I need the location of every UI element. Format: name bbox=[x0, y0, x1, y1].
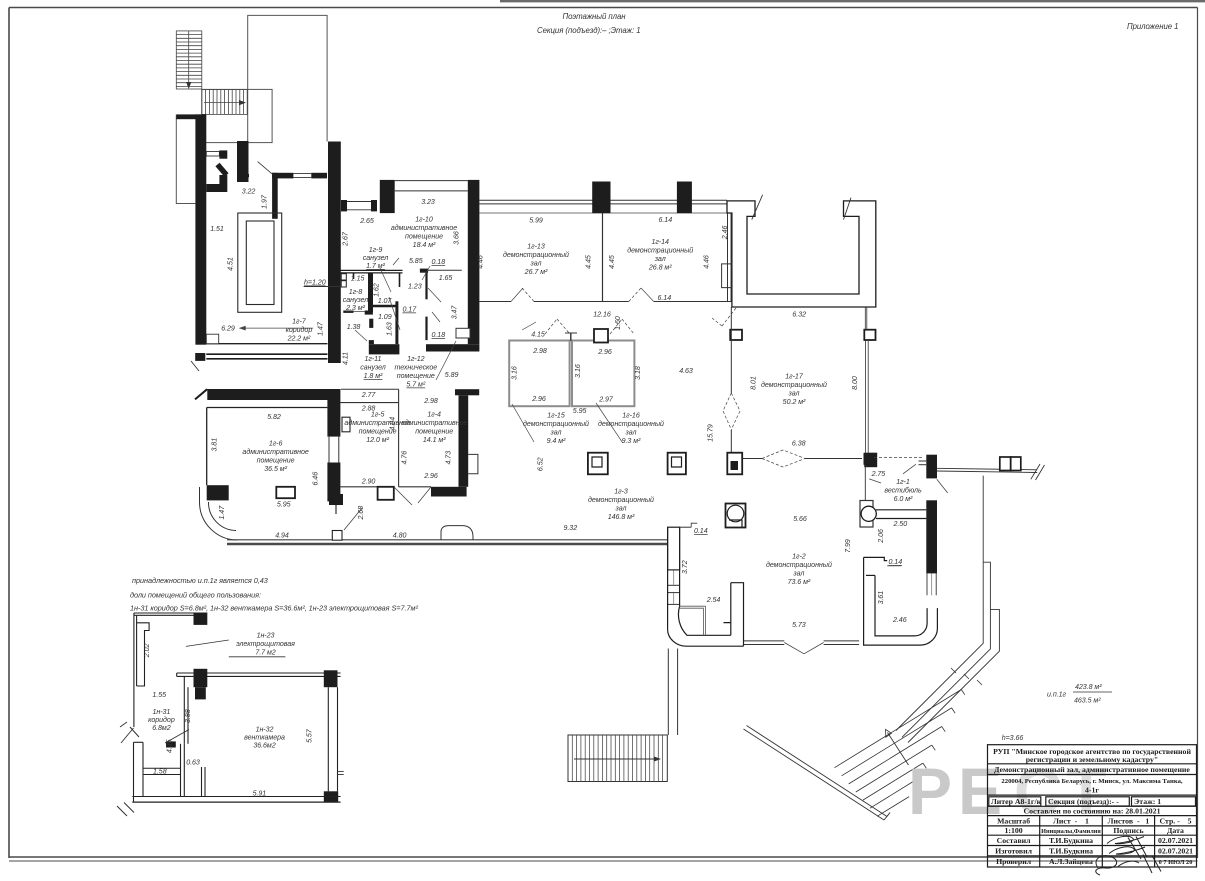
fixture box top of 16 bbox=[594, 329, 608, 343]
svg-text:1.63: 1.63 bbox=[385, 322, 393, 336]
column box at 1g-5 door bbox=[378, 487, 394, 500]
svg-text:Составил: Составил bbox=[997, 836, 1032, 845]
south wall main bbox=[227, 539, 668, 541]
15.79 wall line with diamond bbox=[730, 307, 732, 393]
svg-text:зал: зал bbox=[530, 260, 542, 268]
svg-text:2.65: 2.65 bbox=[359, 217, 374, 225]
svg-text:18.4 м²: 18.4 м² bbox=[413, 241, 436, 249]
main left thick wall bbox=[195, 114, 206, 344]
top window band halls 13/14 bbox=[479, 199, 727, 201]
svg-text:6.46: 6.46 bbox=[312, 472, 320, 486]
svg-text:3.81: 3.81 bbox=[211, 438, 219, 452]
svg-text:1.8 м²: 1.8 м² bbox=[364, 372, 383, 380]
svg-text:принадлежностью и.п.1г являет: принадлежностью и.п.1г является 0,43 bbox=[132, 576, 268, 585]
h=1.20 line bbox=[304, 286, 341, 288]
svg-text:Изготовил: Изготовил bbox=[995, 846, 1032, 855]
svg-text:7.7 м2: 7.7 м2 bbox=[255, 649, 275, 657]
svg-text:3.47: 3.47 bbox=[451, 305, 459, 320]
svg-text:36.6м2: 36.6м2 bbox=[253, 742, 275, 750]
small box on south wall bbox=[332, 531, 342, 541]
svg-text:2.3 м²: 2.3 м² bbox=[345, 304, 365, 312]
svg-text:220004, Республика Беларусь, г: 220004, Республика Беларусь, г. Минск, у… bbox=[1001, 778, 1183, 785]
svg-text:1.38: 1.38 bbox=[347, 323, 361, 331]
svg-text:3.18: 3.18 bbox=[634, 366, 642, 380]
svg-text:9.4 м²: 9.4 м² bbox=[547, 437, 566, 445]
watermark bbox=[908, 754, 1112, 828]
svg-text:Т.И.Будкина: Т.И.Будкина bbox=[1049, 846, 1093, 855]
svg-text:h=1.20: h=1.20 bbox=[304, 279, 326, 287]
svg-text:1н-31 коридор S=6.8м², 1н-32: 1н-31 коридор S=6.8м², 1н-32 венткамера … bbox=[130, 604, 418, 613]
door swings halls bbox=[511, 288, 523, 302]
svg-text:3.16: 3.16 bbox=[511, 366, 519, 380]
1g-6 SW corner bbox=[207, 485, 229, 500]
svg-text:22.2 м²: 22.2 м² bbox=[287, 335, 311, 343]
stair shaft outer thin rect bbox=[202, 15, 327, 142]
lower-left cell walls bbox=[133, 742, 135, 802]
top wall 1n-23 bbox=[134, 612, 208, 614]
porch edge lines / steps bbox=[896, 476, 983, 731]
svg-text:техническое: техническое bbox=[394, 364, 437, 372]
ventkamera right wall bbox=[327, 687, 329, 791]
entry top wall y173-178 bbox=[272, 173, 327, 179]
svg-text:4.76: 4.76 bbox=[401, 451, 409, 465]
svg-text:зал: зал bbox=[550, 429, 562, 437]
bottom wall halls 13/14 bbox=[479, 301, 511, 303]
svg-text:Масштаб: Масштаб bbox=[997, 816, 1030, 825]
1g-5 walls bbox=[341, 388, 399, 390]
svg-text:Дата: Дата bbox=[1167, 826, 1184, 835]
svg-text:1.62: 1.62 bbox=[372, 283, 380, 297]
corridor arrow 6.29 bbox=[242, 327, 313, 329]
svg-text:Демонстрационный зал, админист: Демонстрационный зал, административное п… bbox=[994, 765, 1190, 774]
svg-text:1н-23: 1н-23 bbox=[257, 632, 275, 640]
svg-text:1г-9: 1г-9 bbox=[369, 246, 383, 254]
svg-text:демонстрационный: демонстрационный bbox=[503, 251, 569, 259]
svg-text:зал: зал bbox=[788, 390, 800, 398]
left wall windows bbox=[668, 569, 680, 571]
door swing left bbox=[752, 195, 763, 220]
door swing 3.22 bbox=[258, 162, 273, 174]
svg-text:1.58: 1.58 bbox=[153, 767, 167, 775]
svg-text:А.Л.Зайцева: А.Л.Зайцева bbox=[1049, 857, 1093, 866]
ventkamera left wall bbox=[183, 676, 185, 743]
svg-text:вестибюль: вестибюль bbox=[884, 487, 922, 495]
wall between entry and shaft bbox=[272, 173, 278, 219]
svg-text:0.17: 0.17 bbox=[402, 306, 417, 314]
svg-text:h=3.66: h=3.66 bbox=[1002, 734, 1024, 742]
svg-text:4.45: 4.45 bbox=[585, 255, 593, 269]
wall right of landing (3.22 doorway) bbox=[237, 141, 249, 182]
svg-text:1г-15: 1г-15 bbox=[547, 412, 565, 420]
svg-text:14.1 м²: 14.1 м² bbox=[423, 436, 446, 444]
left wall bbox=[133, 613, 135, 727]
svg-text:1г-5: 1г-5 bbox=[371, 411, 385, 419]
svg-text:4.46: 4.46 bbox=[702, 255, 710, 269]
svg-text:1г-13: 1г-13 bbox=[527, 243, 545, 251]
svg-text:1г-11: 1г-11 bbox=[365, 355, 382, 363]
svg-text:73.6 м²: 73.6 м² bbox=[788, 578, 811, 586]
chamfer wall piece bbox=[219, 150, 227, 158]
svg-text:санузел: санузел bbox=[343, 296, 369, 304]
svg-text:5.82: 5.82 bbox=[267, 413, 281, 421]
right pier black lower bbox=[926, 500, 937, 573]
gray room boxes 15/16 bbox=[509, 341, 569, 407]
svg-text:0.18: 0.18 bbox=[431, 258, 445, 266]
svg-text:Листов - 1: Листов - 1 bbox=[1108, 816, 1150, 825]
svg-text:Этаж: 1: Этаж: 1 bbox=[1134, 797, 1161, 806]
svg-text:3.22: 3.22 bbox=[242, 188, 256, 196]
column at 15.79 bottom bbox=[727, 453, 742, 475]
svg-text:2.96: 2.96 bbox=[597, 348, 612, 356]
svg-text:146.8 м²: 146.8 м² bbox=[608, 513, 635, 521]
columns row bbox=[588, 453, 608, 475]
svg-text:1:100: 1:100 bbox=[1004, 826, 1022, 835]
svg-text:0.18: 0.18 bbox=[431, 331, 445, 339]
svg-text:6.14: 6.14 bbox=[657, 294, 671, 302]
svg-text:зал: зал bbox=[792, 570, 804, 578]
svg-text:регистрации и земельному кадас: регистрации и земельному кадастру" bbox=[1026, 755, 1159, 764]
svg-text:венткамера: венткамера bbox=[244, 734, 285, 742]
1g-4 walls bbox=[455, 389, 479, 395]
pier1 bbox=[592, 182, 610, 214]
exterior wall double to stair bbox=[667, 649, 669, 736]
svg-text:5.73: 5.73 bbox=[792, 621, 806, 629]
1g-2 left wall bbox=[668, 527, 680, 570]
svg-text:4.51: 4.51 bbox=[227, 257, 235, 271]
svg-text:12.0 м²: 12.0 м² bbox=[366, 436, 389, 444]
vestibule south wall band bbox=[876, 510, 926, 519]
svg-text:и.п.1г: и.п.1г bbox=[1047, 691, 1066, 699]
svg-text:8.00: 8.00 bbox=[851, 376, 859, 390]
svg-text:административное: административное bbox=[242, 448, 308, 456]
svg-text:5.95: 5.95 bbox=[573, 407, 587, 415]
svg-text:демонстрационный: демонстрационный bbox=[523, 420, 589, 428]
svg-text:демонстрационный: демонстрационный bbox=[766, 561, 832, 569]
svg-text:4.04: 4.04 bbox=[389, 417, 397, 431]
svg-text:2.77: 2.77 bbox=[361, 391, 377, 399]
U loading dock walls bbox=[727, 201, 876, 307]
svg-text:РЕ: РЕ bbox=[908, 754, 1008, 828]
SE J-wall of 1g-2 bbox=[864, 557, 888, 560]
svg-text:3.72: 3.72 bbox=[681, 560, 689, 574]
svg-text:50.2 м²: 50.2 м² bbox=[783, 398, 806, 406]
svg-text:административное: административное bbox=[401, 419, 467, 427]
canopy columns bbox=[1000, 457, 1011, 471]
svg-text:зал: зал bbox=[615, 505, 627, 513]
svg-text:4.63: 4.63 bbox=[679, 367, 693, 375]
svg-text:1.07: 1.07 bbox=[378, 297, 393, 305]
left attachment box bbox=[722, 264, 732, 288]
svg-text:1г-3: 1г-3 bbox=[614, 488, 628, 496]
svg-text:4.94: 4.94 bbox=[275, 531, 289, 539]
svg-text:Инициалы,Фамилия: Инициалы,Фамилия bbox=[1041, 828, 1101, 835]
svg-text:2.97: 2.97 bbox=[598, 396, 614, 404]
svg-text:6.14: 6.14 bbox=[658, 216, 672, 224]
svg-text:2.68: 2.68 bbox=[357, 506, 365, 521]
svg-text:1н-32: 1н-32 bbox=[256, 726, 274, 734]
svg-text:2.90: 2.90 bbox=[361, 478, 376, 486]
top stepped wall left bbox=[341, 200, 377, 211]
svg-text:1г-1: 1г-1 bbox=[896, 478, 910, 486]
svg-text:1.51: 1.51 bbox=[210, 225, 224, 233]
svg-text:2.96: 2.96 bbox=[531, 395, 546, 403]
svg-text:3.61: 3.61 bbox=[877, 591, 885, 605]
corridor 1g-7 bottom thin wall bbox=[206, 343, 327, 345]
left thin strip bbox=[176, 115, 195, 204]
right wall 1g-17 bbox=[864, 340, 866, 453]
svg-text:административное: административное bbox=[391, 224, 457, 232]
svg-text:демонстрационный: демонстрационный bbox=[761, 381, 827, 389]
svg-text:9.3 м²: 9.3 м² bbox=[622, 437, 641, 445]
svg-text:2.02: 2.02 bbox=[143, 643, 151, 658]
svg-text:2.46: 2.46 bbox=[892, 616, 907, 624]
svg-text:0 7 ИЮЛ 20: 0 7 ИЮЛ 20 bbox=[1159, 859, 1193, 866]
svg-text:Стр. - 5: Стр. - 5 bbox=[1160, 816, 1192, 825]
svg-text:1.7 м²: 1.7 м² bbox=[366, 262, 385, 270]
svg-text:8.01: 8.01 bbox=[750, 376, 758, 390]
svg-text:1.97: 1.97 bbox=[261, 194, 269, 209]
door swing right bbox=[844, 198, 852, 220]
elevator shaft double-wall rect bbox=[238, 213, 282, 312]
top tick between bbox=[570, 333, 572, 341]
1g-6 room walls bbox=[207, 407, 328, 409]
svg-text:4.15: 4.15 bbox=[531, 331, 545, 339]
round column w/ base bbox=[860, 501, 873, 528]
dashed swing below bbox=[722, 308, 736, 326]
svg-text:2.54: 2.54 bbox=[706, 596, 721, 604]
svg-text:4.11: 4.11 bbox=[341, 352, 349, 365]
svg-text:6.52: 6.52 bbox=[536, 457, 544, 471]
right wall hall14 bbox=[727, 204, 729, 302]
svg-text:1г-12: 1г-12 bbox=[407, 355, 425, 363]
svg-text:4.46: 4.46 bbox=[477, 255, 485, 269]
svg-text:3.88: 3.88 bbox=[184, 709, 192, 723]
svg-text:помещение: помещение bbox=[405, 233, 443, 241]
svg-text:электрощитовая: электрощитовая bbox=[236, 640, 295, 648]
svg-text:4.35: 4.35 bbox=[166, 739, 174, 753]
svg-text:1г-7: 1г-7 bbox=[292, 318, 307, 326]
svg-text:5.7 м²: 5.7 м² bbox=[406, 381, 425, 389]
svg-text:0.63: 0.63 bbox=[186, 758, 200, 766]
big right wall x328-341 bbox=[328, 142, 341, 364]
svg-text:санузел: санузел bbox=[360, 364, 386, 372]
1g-6 top exterior band bbox=[207, 389, 327, 400]
leaders bbox=[512, 404, 534, 442]
stair flight vertical bbox=[176, 31, 202, 89]
svg-text:6.38: 6.38 bbox=[792, 440, 806, 448]
signatures bbox=[1096, 836, 1161, 875]
canopy double line right bbox=[937, 468, 1037, 470]
svg-text:0.14: 0.14 bbox=[694, 527, 708, 535]
svg-text:Составлен по состоянию на: 28.: Составлен по состоянию на: 28.01.2021 bbox=[1024, 807, 1161, 816]
svg-text:6.32: 6.32 bbox=[792, 311, 806, 319]
svg-text:5.66: 5.66 bbox=[793, 515, 807, 523]
divider wall 13/14 bbox=[602, 213, 604, 302]
svg-text:2.98: 2.98 bbox=[423, 397, 438, 405]
svg-text:9.32: 9.32 bbox=[563, 524, 577, 532]
svg-text:5.95: 5.95 bbox=[277, 501, 291, 509]
lower strip wall double bbox=[744, 729, 885, 820]
svg-text:1г-14: 1г-14 bbox=[651, 238, 669, 246]
dashed door swings bbox=[545, 319, 570, 334]
svg-text:2.96: 2.96 bbox=[423, 472, 438, 480]
svg-text:5.99: 5.99 bbox=[529, 217, 543, 225]
svg-text:демонстрационный: демонстрационный bbox=[588, 496, 654, 504]
big wall right of 1g-10 bbox=[468, 180, 480, 344]
svg-text:26.7 м²: 26.7 м² bbox=[524, 268, 548, 276]
arrow up flight bbox=[888, 733, 909, 766]
svg-text:5.85: 5.85 bbox=[409, 257, 423, 265]
svg-text:зал: зал bbox=[625, 429, 637, 437]
svg-text:Приложение 1: Приложение 1 bbox=[1127, 22, 1178, 31]
svg-text:3.16: 3.16 bbox=[574, 364, 582, 378]
svg-text:15.79: 15.79 bbox=[706, 424, 714, 442]
svg-text:помещение: помещение bbox=[257, 457, 295, 465]
svg-text:коридор: коридор bbox=[148, 716, 175, 724]
svg-text:6.8м2: 6.8м2 bbox=[152, 724, 171, 732]
svg-text:5.89: 5.89 bbox=[445, 371, 459, 379]
svg-text:26.8 м²: 26.8 м² bbox=[648, 264, 672, 272]
svg-text:помещение: помещение bbox=[397, 372, 435, 380]
svg-text:1.15: 1.15 bbox=[351, 275, 365, 283]
svg-text:Подпись: Подпись bbox=[1113, 826, 1143, 835]
svg-text:Проверил: Проверил bbox=[996, 857, 1032, 866]
svg-text:Литер А8-1г/к: Литер А8-1г/к bbox=[991, 797, 1042, 806]
SW corner 1g-2 bbox=[668, 629, 744, 646]
landing thin rect bbox=[202, 89, 272, 142]
svg-text:1.47: 1.47 bbox=[218, 505, 226, 520]
divider wall 1g-6/1g-5 bbox=[327, 389, 340, 437]
svg-text:Секция (подъезд):– ;Этаж: 1: Секция (подъезд):– ;Этаж: 1 bbox=[537, 26, 641, 35]
svg-text:36.5 м²: 36.5 м² bbox=[264, 465, 287, 473]
1n-23 bottom wall bbox=[177, 672, 341, 674]
vent boxes bbox=[341, 274, 346, 280]
svg-text:0.14: 0.14 bbox=[888, 558, 902, 566]
svg-text:Секция (подъезд):- -: Секция (подъезд):- - bbox=[1048, 797, 1119, 806]
box 5.95 in 1g-6 bbox=[276, 487, 295, 498]
svg-text:1г-4: 1г-4 bbox=[427, 411, 441, 419]
svg-text:демонстрационный: демонстрационный bbox=[598, 420, 664, 428]
vestibule north wall bbox=[864, 453, 875, 465]
leader lines sanuzel bbox=[380, 268, 391, 292]
corridor south double wall bbox=[206, 353, 327, 355]
svg-text:2.75: 2.75 bbox=[871, 470, 886, 478]
horizontal staircase bbox=[568, 735, 667, 782]
svg-text:1г-8: 1г-8 bbox=[349, 288, 363, 296]
svg-text:6.29: 6.29 bbox=[221, 325, 235, 333]
svg-text:7.99: 7.99 bbox=[844, 539, 852, 553]
svg-text:санузел: санузел bbox=[363, 254, 389, 262]
tread fan bbox=[835, 690, 962, 817]
svg-text:1г-16: 1г-16 bbox=[622, 412, 640, 420]
svg-text:02.07.2021: 02.07.2021 bbox=[1158, 846, 1193, 855]
svg-text:6.0 м²: 6.0 м² bbox=[894, 495, 913, 503]
svg-text:1.65: 1.65 bbox=[439, 274, 453, 282]
left pier of 1g-10 bbox=[380, 180, 395, 213]
bottom wall 1g-17 with diamond opening bbox=[742, 458, 762, 460]
svg-text:помещение: помещение bbox=[415, 428, 453, 436]
svg-text:3.66: 3.66 bbox=[453, 231, 461, 245]
svg-text:доли помещений общего пользова: доли помещений общего пользования: bbox=[130, 591, 261, 600]
svg-text:2.06: 2.06 bbox=[877, 529, 885, 544]
svg-text:1г-10: 1г-10 bbox=[415, 216, 433, 224]
svg-text:4.45: 4.45 bbox=[608, 255, 616, 269]
svg-text:1г-6: 1г-6 bbox=[269, 440, 283, 448]
window band 1g-10 bbox=[395, 180, 468, 182]
svg-text:Т.И.Будкина: Т.И.Будкина bbox=[1049, 836, 1093, 845]
fixture with circle bbox=[726, 504, 746, 528]
svg-text:4-1г: 4-1г bbox=[1085, 786, 1099, 795]
svg-text:2.50: 2.50 bbox=[892, 520, 907, 528]
niche in stair wall bbox=[206, 152, 219, 157]
HEADER bbox=[537, 12, 1178, 35]
svg-text:1.55: 1.55 bbox=[152, 691, 166, 699]
svg-text:1.47: 1.47 bbox=[317, 321, 325, 336]
bottom window/wall 1g-2 bbox=[744, 640, 785, 642]
room 1.65 niche bbox=[420, 269, 462, 271]
svg-text:5.57: 5.57 bbox=[306, 728, 314, 743]
sanuzel walls bbox=[334, 270, 403, 287]
svg-text:4.73: 4.73 bbox=[444, 451, 452, 465]
svg-text:коридор: коридор bbox=[286, 326, 313, 334]
svg-text:1г-17: 1г-17 bbox=[785, 373, 804, 381]
svg-text:зал: зал bbox=[654, 255, 666, 263]
svg-text:демонстрационный: демонстрационный bbox=[627, 247, 693, 255]
svg-text:1н-31: 1н-31 bbox=[152, 708, 170, 716]
svg-text:5.91: 5.91 bbox=[253, 790, 267, 798]
svg-text:Лист - 1: Лист - 1 bbox=[1053, 816, 1089, 825]
inner corner thin L bbox=[680, 606, 706, 635]
svg-text:2.46: 2.46 bbox=[721, 225, 729, 240]
door swings bbox=[121, 728, 134, 743]
right band of SW corner porch bbox=[724, 623, 731, 636]
svg-text:3.23: 3.23 bbox=[421, 198, 435, 206]
svg-text:1г-2: 1г-2 bbox=[792, 553, 806, 561]
svg-text:463.5 м²: 463.5 м² bbox=[1074, 697, 1101, 705]
west line of vestibule bbox=[864, 465, 866, 501]
svg-text:1.23: 1.23 bbox=[408, 283, 422, 291]
svg-text:2.67: 2.67 bbox=[342, 231, 350, 247]
svg-text:02.07.2021: 02.07.2021 bbox=[1158, 836, 1193, 845]
svg-text:4.80: 4.80 bbox=[393, 531, 407, 539]
bottom wall bbox=[132, 796, 340, 798]
tick marks on diagonals bbox=[951, 668, 956, 673]
columns below U bbox=[730, 330, 742, 340]
svg-text:Поэтажный план: Поэтажный план bbox=[563, 12, 627, 21]
svg-text:1.09: 1.09 bbox=[378, 313, 392, 321]
svg-text:1.60: 1.60 bbox=[614, 316, 622, 330]
SE rounded step (outside) bbox=[441, 526, 473, 540]
stair flight horizontal bbox=[202, 89, 247, 114]
svg-text:2.98: 2.98 bbox=[532, 347, 547, 355]
inner niche bbox=[137, 623, 150, 686]
svg-text:12.16: 12.16 bbox=[593, 311, 611, 319]
svg-text:423.8 м²: 423.8 м² bbox=[1075, 683, 1102, 691]
zigzag step hooks bbox=[915, 690, 965, 786]
pier2 bbox=[677, 182, 692, 214]
